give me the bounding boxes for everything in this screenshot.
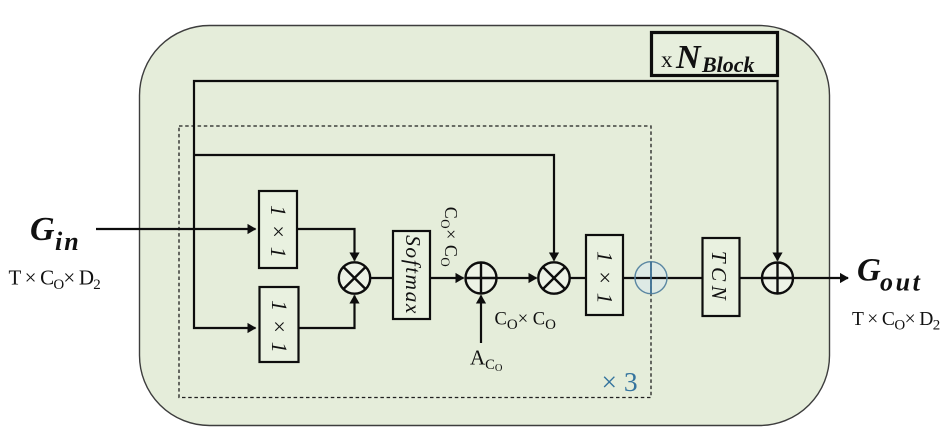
wire: TCN to adder 2 xyxy=(740,277,763,279)
svg-text:x: x xyxy=(661,47,673,72)
TCN box xyxy=(703,238,740,316)
blue adder node xyxy=(635,262,667,294)
svg-text:out: out xyxy=(880,268,922,297)
wire: multiplier 2 to conv 3 xyxy=(569,277,586,279)
conv box 1x1 output xyxy=(586,235,623,315)
svg-text:1 × 1: 1 × 1 xyxy=(266,205,291,259)
wire: inner skip to multiplier xyxy=(194,155,554,261)
wire: trunk down to lower conv xyxy=(194,229,256,328)
softmax box xyxy=(393,231,430,319)
conv box 1x1 upper xyxy=(259,191,297,268)
dashed inner group box xyxy=(179,126,651,398)
multiplier X1 xyxy=(339,262,370,293)
conv box 1x1 lower xyxy=(260,287,299,362)
svg-text:1 × 1: 1 × 1 xyxy=(593,251,618,305)
svg-text:Softmax: Softmax xyxy=(401,235,425,315)
N_Block repeat box xyxy=(652,33,778,76)
wire: outer skip loop xyxy=(194,81,778,261)
adder P2 xyxy=(762,263,793,294)
wire: lower conv to multiplier xyxy=(299,296,355,329)
multiplier X2 xyxy=(538,262,569,293)
blue adder node fill xyxy=(635,262,667,294)
wire: output arrow xyxy=(793,277,848,279)
svg-text:G: G xyxy=(857,253,881,289)
svg-text:× 3: × 3 xyxy=(602,366,638,397)
wire: input from G_in xyxy=(96,228,256,230)
svg-text:1 × 1: 1 × 1 xyxy=(267,300,292,354)
wire: conv3 to TCN (through blue adder) xyxy=(623,277,702,279)
wire: upper conv to multiplier xyxy=(297,229,355,261)
svg-text:N: N xyxy=(675,39,702,76)
wire: adder to multiplier 2 xyxy=(497,277,537,279)
wire: softmax to adder xyxy=(430,277,464,279)
outer rounded block xyxy=(140,26,830,426)
wire: multiplier to softmax xyxy=(370,277,393,279)
svg-text:in: in xyxy=(55,227,81,256)
svg-text:Block: Block xyxy=(701,52,755,77)
svg-text:G: G xyxy=(30,211,55,248)
adder P1 xyxy=(466,263,497,294)
wire: A matrix into adder xyxy=(480,296,482,344)
svg-text:TCN: TCN xyxy=(707,251,731,304)
